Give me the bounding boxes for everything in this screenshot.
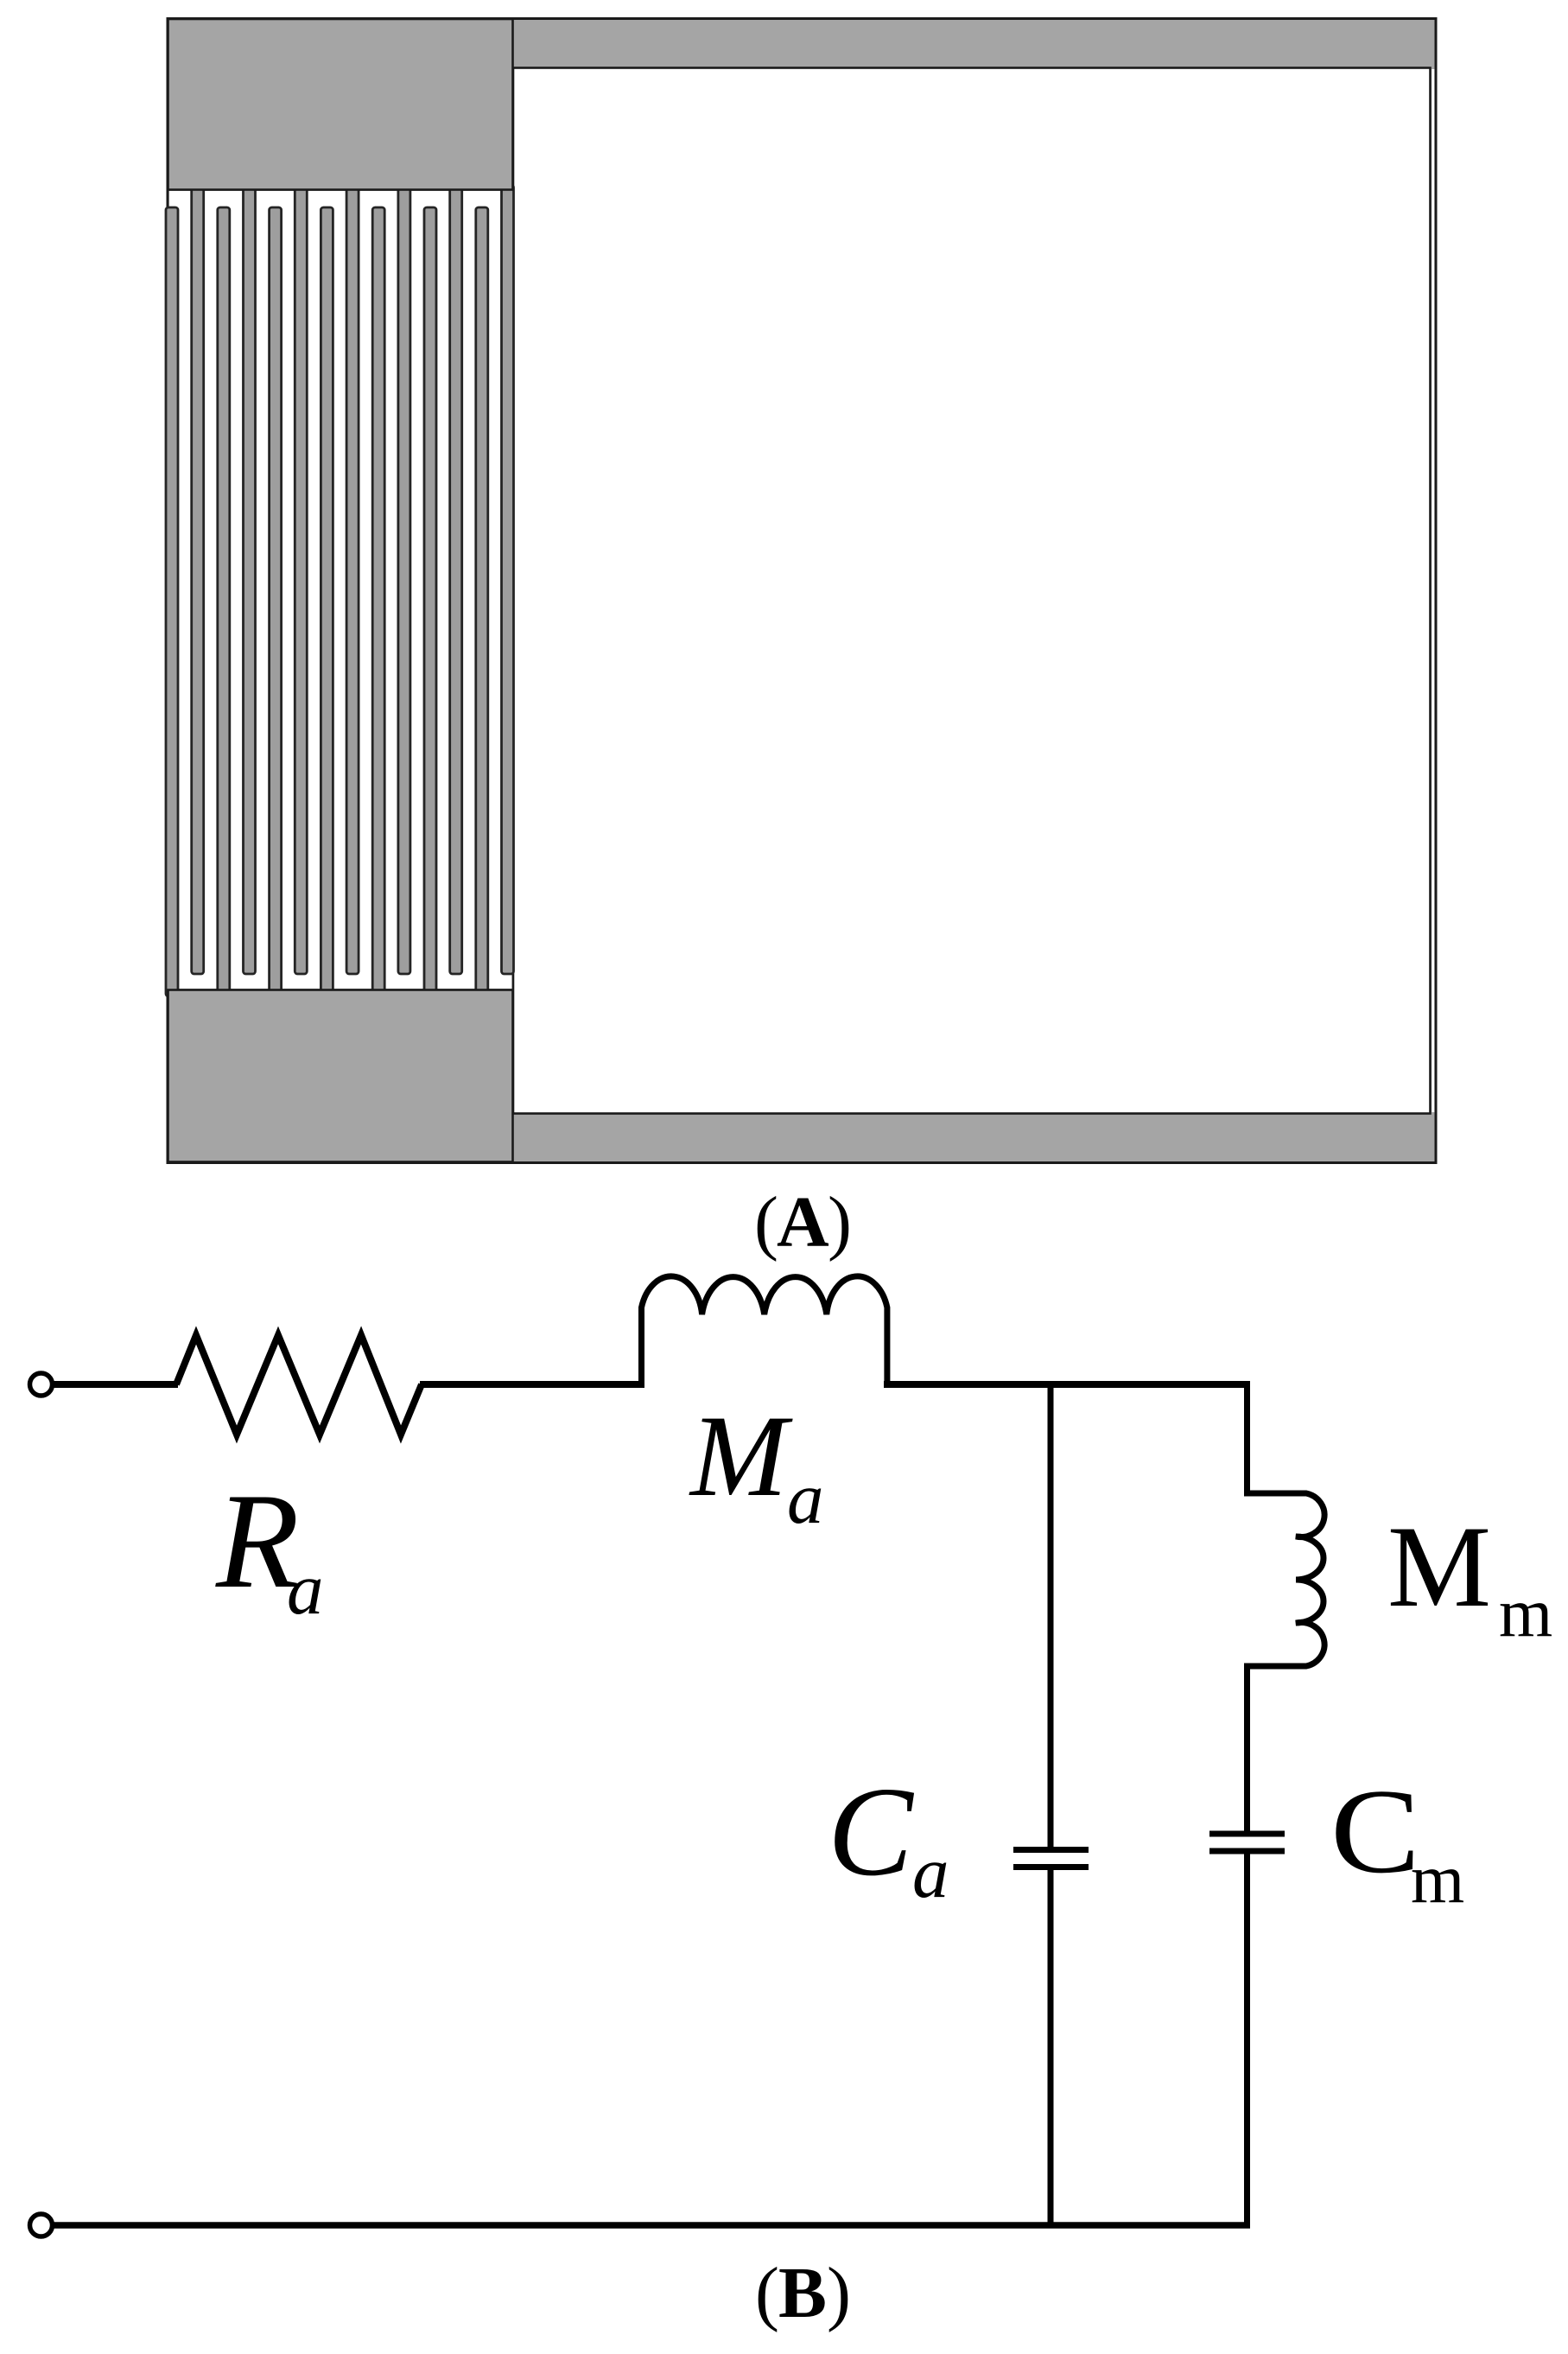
svg-text:C: C	[828, 1761, 915, 1903]
svg-text:(: (	[754, 1182, 778, 1263]
IDT bottom-electrode finger 3	[270, 207, 282, 996]
wire inductor Ma to node A	[884, 1381, 1250, 1388]
svg-text:M: M	[1387, 1503, 1491, 1632]
inductor Mm	[1244, 1493, 1324, 1666]
IDT top-electrode finger 1	[192, 185, 204, 974]
wire Cm to bottom rail	[1244, 1854, 1250, 2229]
capacitor Ca bottom plate	[1013, 1864, 1089, 1870]
IDT bottom-electrode finger 1	[166, 207, 178, 996]
svg-text:C: C	[1330, 1765, 1420, 1899]
svg-text:a: a	[787, 1458, 824, 1539]
svg-text:A: A	[777, 1182, 829, 1263]
capacitor Ca top plate	[1013, 1847, 1089, 1853]
label Cm	[1330, 1765, 1464, 1918]
svg-text:a: a	[287, 1549, 324, 1630]
IDT inner white cavity	[513, 68, 1434, 1114]
IDT top bus pad	[168, 19, 513, 190]
svg-text:m: m	[1499, 1575, 1552, 1651]
capacitor Cm bottom plate	[1209, 1848, 1285, 1855]
capacitor Cm top plate	[1209, 1831, 1285, 1837]
IDT bottom-electrode finger 6	[424, 207, 436, 996]
label (B)	[755, 2253, 851, 2333]
IDT top-electrode finger 7	[502, 185, 514, 974]
IDT device outer gray frame	[168, 19, 1436, 1163]
IDT bottom-electrode finger 7	[476, 207, 488, 996]
IDT top-electrode finger 2	[244, 185, 256, 974]
wire resistor to inductor Ma	[420, 1381, 644, 1388]
svg-text:a: a	[912, 1832, 949, 1913]
IDT bottom bus pad	[168, 990, 513, 1162]
wire T1 to resistor	[53, 1381, 178, 1388]
svg-text:): )	[828, 1182, 852, 1263]
label Ma	[689, 1392, 824, 1539]
terminal T1 (top input)	[30, 1373, 53, 1396]
svg-text:B: B	[778, 2253, 827, 2333]
terminal T2 (bottom)	[30, 2214, 53, 2236]
IDT bottom-electrode finger 4	[321, 207, 333, 996]
wire node A down to inductor Mm	[1244, 1381, 1250, 1493]
svg-text:(: (	[755, 2253, 779, 2333]
label Ra	[215, 1466, 324, 1630]
label Ca	[828, 1761, 949, 1913]
label (A)	[754, 1182, 852, 1263]
node A junction to Ca branch	[1048, 1383, 1054, 1848]
IDT bottom-electrode finger 2	[218, 207, 230, 996]
IDT top-electrode finger 3	[295, 185, 307, 974]
bottom rail wire	[53, 2222, 1250, 2229]
IDT finger gap white zone	[169, 191, 512, 989]
IDT top-electrode finger 4	[346, 185, 359, 974]
label Mm	[1387, 1503, 1552, 1651]
svg-text:m: m	[1411, 1842, 1464, 1918]
IDT bottom-electrode finger 5	[372, 207, 384, 996]
resistor Ra	[176, 1335, 422, 1435]
svg-text:M: M	[689, 1392, 793, 1521]
IDT top-electrode finger 6	[450, 185, 462, 974]
wire Mm to capacitor Cm	[1244, 1666, 1250, 1831]
inductor Ma	[642, 1276, 887, 1388]
wire Ca to bottom rail	[1048, 1870, 1054, 2226]
IDT top-electrode finger 5	[398, 185, 410, 974]
svg-text:): )	[827, 2253, 851, 2333]
